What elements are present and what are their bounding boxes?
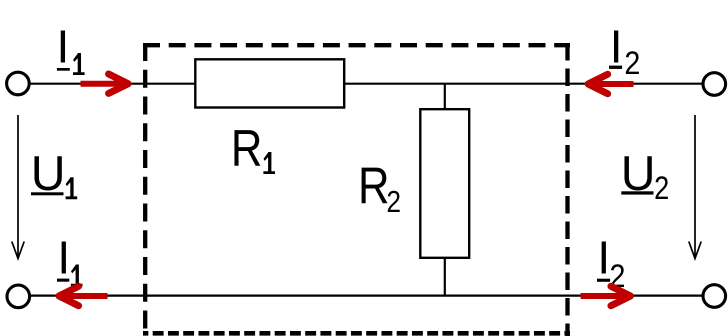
two-port network boundary dashed box right edge <box>565 43 569 336</box>
svg-text:I: I <box>610 21 623 73</box>
wire bottom conductor <box>31 295 702 297</box>
current arrow I2 top-right (red, pointing left) <box>588 74 633 93</box>
label I2 bottom-right <box>597 231 625 294</box>
resistor R1 <box>195 59 344 107</box>
label I1 bottom-left <box>57 232 83 287</box>
wire R2 branch <box>444 84 446 296</box>
svg-text:I: I <box>57 232 70 284</box>
svg-text:I: I <box>597 231 610 283</box>
current arrow I1 bottom-left (red, pointing left) <box>59 286 108 305</box>
label R2 <box>358 158 401 219</box>
svg-text:2: 2 <box>624 46 640 82</box>
label I1 top-left <box>57 21 85 76</box>
two-port network boundary dashed box bottom edge <box>143 331 570 336</box>
terminal bottom-left circle <box>7 285 30 308</box>
two-port network boundary dashed box top edge <box>143 43 570 47</box>
wire top conductor <box>31 83 702 85</box>
label R1 <box>231 121 275 178</box>
terminal top-right circle <box>703 73 726 96</box>
svg-text:2: 2 <box>654 171 669 207</box>
label U2 right <box>621 146 670 206</box>
terminal bottom-right circle <box>703 285 726 308</box>
voltage arrow U2 (right, pointing down) <box>689 115 701 259</box>
terminal top-left circle <box>7 72 30 95</box>
label I2 top-right <box>609 21 640 82</box>
svg-text:R: R <box>231 121 263 178</box>
current arrow I2 bottom-right (red, pointing right) <box>581 286 631 305</box>
label U1 left <box>31 147 77 201</box>
two-port network boundary dashed box left edge <box>143 43 147 336</box>
current arrow I1 top-left (red, pointing right) <box>81 74 129 93</box>
resistor R2 <box>420 109 469 258</box>
voltage arrow U1 (left, pointing down) <box>12 115 24 259</box>
svg-text:R: R <box>358 158 390 215</box>
svg-text:2: 2 <box>386 185 401 219</box>
svg-text:I: I <box>57 21 70 73</box>
